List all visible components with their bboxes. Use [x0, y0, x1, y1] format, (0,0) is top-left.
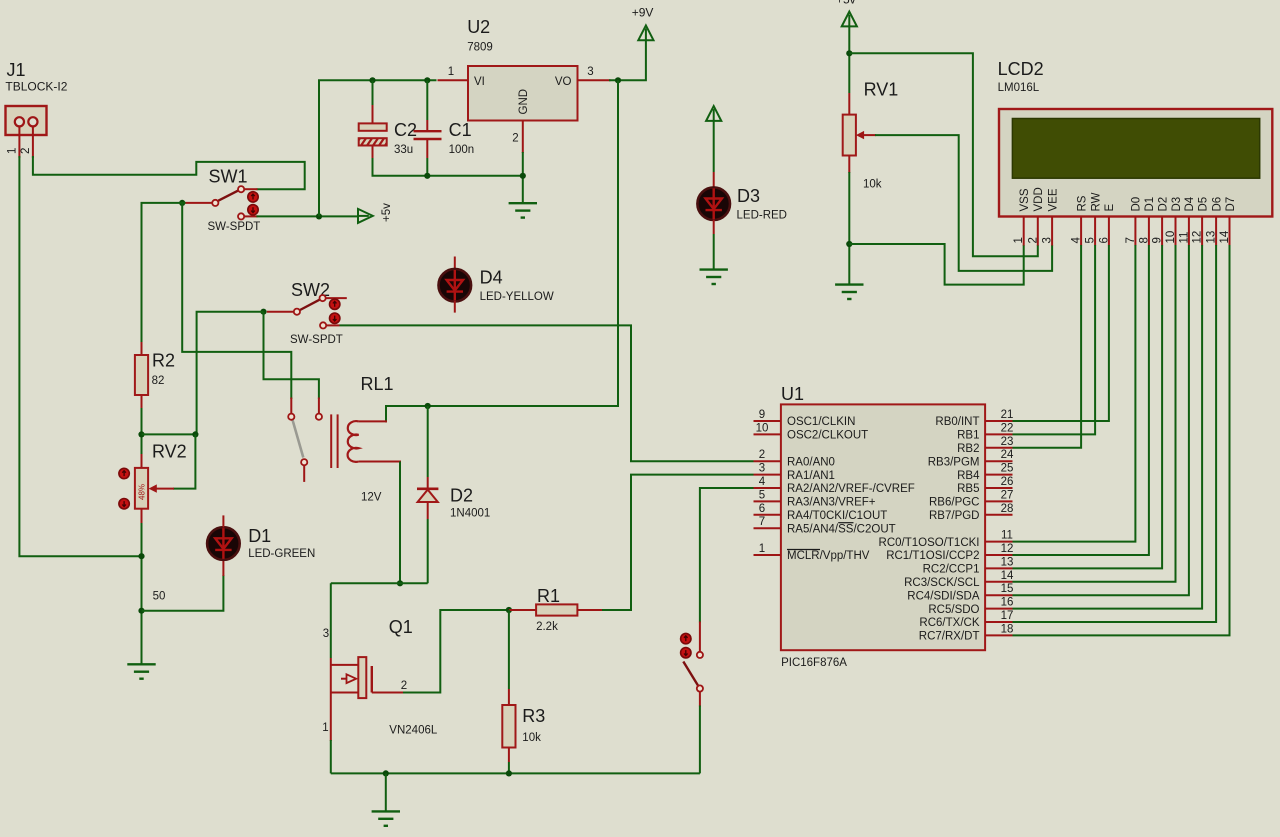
svg-text:6: 6 [759, 503, 765, 515]
relay NO contact [316, 414, 322, 420]
U1 pin 3 stub [754, 474, 781, 476]
wire Q1 drain [330, 583, 332, 658]
svg-text:RA4/T0CKI/C1OUT: RA4/T0CKI/C1OUT [787, 510, 887, 522]
wire D2 anode [427, 406, 429, 477]
svg-text:15: 15 [1001, 583, 1014, 595]
wire SW2 throw to U1 RA0 [340, 325, 754, 461]
svg-text:E: E [1104, 204, 1116, 212]
U2 pin 3 stub [578, 79, 611, 81]
svg-text:100n: 100n [449, 144, 475, 156]
potentiometer RV1 body [843, 115, 856, 156]
svg-text:RC3/SCK/SCL: RC3/SCK/SCL [904, 577, 980, 589]
ground RV1 [835, 285, 863, 299]
svg-text:1: 1 [322, 722, 328, 734]
capacitor C2 plates (electrolytic) [359, 123, 387, 130]
SW1 pole stub [186, 202, 213, 204]
wire D3 anode [713, 120, 715, 172]
svg-text:12: 12 [1001, 543, 1014, 555]
LCD2 pin 13 stub [1215, 217, 1217, 246]
svg-text:D0: D0 [1131, 197, 1143, 212]
wire drain rail [331, 582, 428, 584]
svg-text:2: 2 [1027, 237, 1039, 243]
wire RC7 to LCD D7 [1013, 245, 1230, 635]
SW1 lower throw stub [244, 215, 257, 217]
svg-text:2: 2 [759, 449, 765, 461]
svg-text:RB0/INT: RB0/INT [935, 416, 979, 428]
Q1 gate lead [372, 692, 404, 694]
svg-text:D2: D2 [1157, 197, 1169, 212]
overline SS [838, 522, 853, 524]
LCD2 pin 1 stub [1023, 217, 1025, 246]
svg-text:10: 10 [756, 422, 769, 434]
svg-text:R2: R2 [152, 351, 175, 371]
RV2 actuator dots [119, 468, 129, 509]
junction ground tap [383, 770, 389, 776]
junction D2 top [425, 403, 431, 409]
svg-text:LED-RED: LED-RED [737, 209, 787, 221]
wire +5v to U2 VI rail [319, 80, 437, 216]
U1 pin 25 stub [985, 474, 1012, 476]
wire SW1 pole to relay pole [182, 203, 291, 399]
LCD2 pin 4 stub [1080, 217, 1082, 246]
junction SW1 pole [179, 200, 185, 206]
svg-text:D5: D5 [1197, 197, 1209, 212]
svg-text:RB4: RB4 [957, 470, 980, 482]
svg-text:TBLOCK-I2: TBLOCK-I2 [5, 80, 67, 94]
wire U1 RA2 to switch [700, 488, 754, 623]
capacitor C1 [426, 80, 428, 120]
svg-text:10k: 10k [863, 179, 882, 191]
SW1 lower throw contact [238, 213, 244, 219]
LCD2 screen [1012, 119, 1259, 179]
svg-text:18: 18 [1001, 623, 1014, 635]
wire Q1 source to rail [330, 740, 332, 773]
svg-text:RW: RW [1090, 192, 1102, 211]
svg-text:LED-YELLOW: LED-YELLOW [480, 291, 554, 303]
svg-text:D4: D4 [1184, 196, 1196, 211]
svg-text:MCLR/Vpp/THV: MCLR/Vpp/THV [787, 550, 870, 562]
D1 anode stub [222, 515, 224, 527]
wire SW2 pole to divider [197, 312, 264, 435]
svg-text:11: 11 [1178, 232, 1190, 244]
wire relay coil to Q1 drain rail [399, 462, 401, 584]
U1 pin 5 stub [754, 500, 781, 502]
junction R3 bottom [506, 770, 512, 776]
relay coil top lead [359, 420, 387, 422]
wire R2 to RV2 [141, 408, 143, 455]
junction C2 top [369, 77, 375, 83]
wire VO node down to relay coil [386, 80, 618, 422]
svg-text:28: 28 [1001, 503, 1014, 515]
svg-text:5: 5 [759, 489, 765, 501]
svg-text:RV2: RV2 [152, 441, 187, 461]
LCD2 pin 8 stub [1148, 217, 1150, 246]
SW2 actuator dots [330, 299, 340, 323]
RV1 wiper arrow [862, 134, 876, 136]
J1 pin circle 1 [15, 117, 24, 126]
svg-text:C1: C1 [449, 120, 472, 140]
display LCD2 LM016L body [999, 109, 1272, 217]
relay pole contact [288, 414, 294, 420]
svg-text:9: 9 [759, 409, 765, 421]
svg-text:SW-SPDT: SW-SPDT [208, 221, 261, 233]
svg-text:RB7/PGD: RB7/PGD [929, 510, 980, 522]
power arrow +9V [638, 25, 653, 40]
svg-text:9: 9 [1152, 237, 1164, 243]
wire R2 bottom to SW2 branch [142, 433, 196, 435]
svg-text:2: 2 [401, 680, 407, 692]
U1 pin 21 stub [985, 420, 1012, 422]
resistor R1 [536, 604, 577, 615]
junction D1 node [138, 608, 144, 614]
J1 pin 1 stub [18, 126, 20, 158]
R3 leads [508, 610, 510, 689]
svg-text:R1: R1 [537, 586, 560, 606]
svg-text:5: 5 [1085, 237, 1097, 243]
diode D2 symbol [417, 487, 438, 490]
svg-text:7809: 7809 [467, 42, 493, 54]
SW1 upper throw stub [244, 188, 257, 190]
wire D4 anode stub [454, 257, 456, 270]
svg-text:14: 14 [1219, 230, 1231, 243]
svg-text:RA1/AN1: RA1/AN1 [787, 470, 835, 482]
svg-text:D2: D2 [450, 486, 473, 506]
SW2 lower throw stub [326, 324, 339, 326]
svg-text:RC6/TX/CK: RC6/TX/CK [919, 617, 979, 629]
svg-text:LM016L: LM016L [998, 82, 1040, 94]
wire RV2 bottom to ground [141, 523, 143, 664]
junction coil/drain [397, 580, 403, 586]
svg-text:10: 10 [1165, 231, 1177, 244]
relay RL1 core [330, 414, 332, 468]
microcontroller U1 PIC16F876A body [781, 404, 985, 650]
svg-text:3: 3 [587, 66, 593, 78]
svg-text:RA5/AN4/SS/C2OUT: RA5/AN4/SS/C2OUT [787, 523, 896, 535]
svg-text:2: 2 [512, 133, 518, 145]
relay contact stubs [290, 398, 292, 414]
transistor Q1 channel bar [358, 657, 366, 698]
wire RB2 to LCD RS [1013, 245, 1082, 448]
junction J1.1 node [138, 553, 144, 559]
svg-text:12V: 12V [361, 492, 382, 504]
R1 left lead [509, 609, 536, 611]
junction RV1 top [846, 50, 852, 56]
resistor R2 leads [141, 342, 143, 355]
wire J1.2 to SW1 throw [33, 156, 305, 189]
wire RB0 to LCD E [1013, 245, 1109, 421]
svg-text:25: 25 [1001, 463, 1014, 475]
svg-text:21: 21 [1001, 409, 1014, 421]
svg-text:13: 13 [1206, 231, 1218, 244]
wire D3 cathode [713, 220, 715, 235]
svg-text:SW-SPDT: SW-SPDT [290, 334, 343, 346]
svg-text:RC4/SDI/SDA: RC4/SDI/SDA [907, 590, 980, 602]
wire SW2 pole to relay throw [264, 312, 319, 399]
U1 pin 14 stub [985, 581, 1012, 583]
svg-text:VI: VI [474, 76, 485, 88]
svg-text:RB5: RB5 [957, 483, 979, 495]
U2 pin 2 stub [522, 121, 524, 154]
svg-text:D4: D4 [480, 268, 503, 288]
U1 pin 12 stub [985, 554, 1012, 556]
wire J1.1 to divider bottom node [19, 156, 141, 556]
svg-text:D3: D3 [737, 186, 760, 206]
U1 pin 18 stub [985, 634, 1012, 636]
wire RC4 to LCD D4 [1013, 245, 1189, 595]
svg-text:PIC16F876A: PIC16F876A [781, 657, 847, 669]
LCD2 pin 3 stub [1051, 217, 1053, 246]
svg-text:7: 7 [1125, 237, 1137, 243]
svg-text:R3: R3 [522, 706, 545, 726]
svg-text:2: 2 [20, 148, 32, 154]
overline MCLR [787, 549, 820, 551]
SW2 upper throw contact [320, 295, 326, 301]
svg-text:14: 14 [1001, 570, 1014, 582]
svg-text:RC1/T1OSI/CCP2: RC1/T1OSI/CCP2 [886, 550, 979, 562]
U1 pin 6 stub [754, 514, 781, 516]
svg-text:1: 1 [7, 148, 19, 154]
svg-text:8: 8 [1138, 237, 1150, 243]
svg-text:RC0/T1OSO/T1CKI: RC0/T1OSO/T1CKI [879, 537, 980, 549]
LCD2 pin 2 stub [1037, 217, 1039, 246]
svg-text:RB2: RB2 [957, 443, 979, 455]
J1 pin 2 stub [32, 126, 34, 158]
U1 pin 17 stub [985, 621, 1012, 623]
svg-text:RC7/RX/DT: RC7/RX/DT [919, 631, 980, 643]
wire D4 cathode stub [454, 301, 456, 313]
R1 right lead [577, 609, 603, 611]
svg-text:VO: VO [555, 76, 572, 88]
U1 pin 28 stub [985, 514, 1012, 516]
wire RV1 wiper to LCD VEE [875, 135, 1052, 271]
wire D2 cathode [427, 502, 429, 519]
svg-text:26: 26 [1001, 476, 1014, 488]
svg-text:3: 3 [759, 463, 765, 475]
svg-text:1: 1 [759, 543, 765, 555]
wire RC1 to LCD D1 [1013, 245, 1149, 555]
svg-text:6: 6 [1098, 237, 1110, 243]
wire U2 VO to +9V arrow [609, 40, 646, 81]
SW2 pole stub [267, 311, 294, 313]
wire Q1 gate to R1 node [403, 610, 512, 693]
svg-text:22: 22 [1001, 422, 1014, 434]
wire R1 to U1 RA1 [602, 475, 754, 610]
wire RC6 to LCD D6 [1013, 245, 1217, 622]
svg-text:RC2/CCP1: RC2/CCP1 [923, 564, 980, 576]
potentiometer RV2 leads [141, 454, 143, 468]
junction +5v line [316, 213, 322, 219]
wire RV1 top to LCD VDD [849, 53, 1038, 256]
relay NC contact [301, 459, 307, 465]
LED D1 LED-GREEN [207, 527, 240, 560]
Q1 body arrow [347, 674, 357, 683]
LCD2 pin 5 stub [1094, 217, 1096, 246]
svg-text:23: 23 [1001, 436, 1014, 448]
LCD2 pin 9 stub [1161, 217, 1163, 246]
capacitor C2 leads [372, 80, 374, 105]
LCD2 pin 11 stub [1188, 217, 1190, 246]
U1 pin 4 stub [754, 487, 781, 489]
svg-text:3: 3 [323, 628, 329, 640]
wire SW1 throw to +5v [257, 215, 359, 217]
junction U2 ground rail [520, 173, 526, 179]
wire C2/C1/U2 ground rail [373, 158, 523, 176]
ground divider [127, 664, 155, 678]
svg-text:RA3/AN3/VREF+: RA3/AN3/VREF+ [787, 497, 876, 509]
svg-text:RC5/SDO: RC5/SDO [928, 604, 979, 616]
SW2 pole contact [294, 309, 300, 315]
LCD2 pin 12 stub [1201, 217, 1203, 246]
bottom switch lever [683, 662, 698, 686]
U1 pin 22 stub [985, 433, 1012, 435]
svg-text:4: 4 [1071, 237, 1083, 244]
junction R2 bottom [138, 431, 144, 437]
relay RL1 coil [348, 421, 359, 462]
svg-text:17: 17 [1001, 610, 1014, 622]
svg-text:1: 1 [448, 66, 454, 78]
svg-text:J1: J1 [7, 60, 26, 80]
svg-text:GND: GND [518, 89, 530, 115]
svg-text:27: 27 [1001, 489, 1014, 501]
svg-text:VSS: VSS [1019, 188, 1031, 211]
svg-text:D6: D6 [1211, 197, 1223, 212]
svg-text:2.2k: 2.2k [536, 621, 558, 633]
U1 pin 9 stub [754, 420, 781, 422]
SW1 upper throw contact [238, 186, 244, 192]
svg-text:RB6/PGC: RB6/PGC [929, 497, 980, 509]
wire ground to LCD VSS [849, 244, 1023, 285]
power arrow +5v RV1 [842, 12, 857, 27]
svg-text:RS: RS [1076, 195, 1088, 211]
svg-text:RA2/AN2/VREF-/CVREF: RA2/AN2/VREF-/CVREF [787, 483, 915, 495]
relay coil bottom lead [359, 461, 401, 463]
U1 pin 10 stub [754, 433, 781, 435]
relay lever [293, 420, 304, 458]
bottom switch bottom stub [699, 692, 701, 707]
svg-text:LED-GREEN: LED-GREEN [248, 548, 315, 560]
potentiometer RV2 body [135, 468, 148, 509]
wire RC0 to LCD D0 [1013, 245, 1136, 542]
RV2 wiper arrow [155, 488, 174, 490]
svg-text:10k: 10k [522, 732, 541, 744]
svg-text:VN2406L: VN2406L [389, 724, 438, 736]
svg-text:LCD2: LCD2 [998, 59, 1044, 79]
U1 pin 1 stub [754, 554, 781, 556]
wire switch to rail [699, 706, 701, 774]
svg-text:Q1: Q1 [389, 617, 413, 637]
svg-text:U1: U1 [781, 384, 804, 404]
LCD2 pin 10 stub [1175, 217, 1177, 246]
RV1 bottom lead [848, 156, 850, 174]
svg-text:U2: U2 [467, 17, 490, 37]
U1 pin 13 stub [985, 567, 1012, 569]
junction RV2 wiper net [192, 431, 198, 437]
svg-text:24: 24 [1001, 449, 1014, 461]
bottom switch top stub [699, 622, 701, 652]
SW1 pole contact [212, 200, 218, 206]
wire D1 cathode [142, 575, 224, 611]
ground D3 [700, 270, 728, 284]
resistor R3 [502, 705, 515, 748]
SW2 lower throw contact [320, 322, 326, 328]
svg-text:RB1: RB1 [957, 430, 979, 442]
wire U2 GND to ground [522, 152, 524, 203]
svg-text:RV1: RV1 [864, 80, 899, 100]
svg-text:33u: 33u [394, 144, 413, 156]
wire RC5 to LCD D5 [1013, 245, 1203, 609]
svg-text:3: 3 [1042, 237, 1054, 243]
junction VO output node [615, 77, 621, 83]
svg-text:OSC2/CLKOUT: OSC2/CLKOUT [787, 430, 868, 442]
LED D4 LED-YELLOW [439, 269, 472, 302]
U1 pin 11 stub [985, 541, 1012, 543]
ground bottom [372, 811, 400, 825]
LED D3 LED-RED [697, 187, 730, 220]
svg-text:VDD: VDD [1033, 187, 1045, 211]
SW2 lever [300, 300, 320, 310]
resistor R2 [135, 355, 148, 395]
svg-text:OSC1/CLKIN: OSC1/CLKIN [787, 416, 855, 428]
U1 pin 7 stub [754, 527, 781, 529]
svg-text:D1: D1 [248, 526, 271, 546]
svg-text:12: 12 [1192, 231, 1204, 244]
svg-text:11: 11 [1001, 530, 1013, 542]
wire RC2 to LCD D2 [1013, 245, 1163, 568]
SW1 actuator dots [248, 192, 258, 215]
connector J1 TBLOCK-I2 [6, 106, 47, 135]
svg-text:13: 13 [1001, 556, 1014, 568]
junction C1 top [424, 77, 430, 83]
svg-text:+5v: +5v [381, 203, 393, 222]
U1 pin 26 stub [985, 487, 1012, 489]
U1 pin 16 stub [985, 608, 1012, 610]
junction R1/R3/gate [506, 607, 512, 613]
svg-text:SW1: SW1 [209, 167, 248, 187]
SW1 lever [218, 190, 238, 200]
bottom switch lower contact [697, 685, 703, 691]
svg-text:D1: D1 [1144, 197, 1156, 212]
wire to bottom ground [385, 773, 387, 811]
RV1 top lead [848, 26, 850, 94]
svg-text:1: 1 [1013, 237, 1025, 243]
wire bottom ground rail [331, 772, 700, 774]
svg-text:RL1: RL1 [361, 374, 394, 394]
svg-text:D7: D7 [1225, 197, 1237, 212]
wire RC3 to LCD D3 [1013, 245, 1176, 582]
junction C1 bottom [424, 173, 430, 179]
svg-text:RB3/PGM: RB3/PGM [928, 456, 980, 468]
bottom switch actuator dots [681, 633, 691, 658]
U2 pin 1 stub [438, 79, 469, 81]
svg-text:VEE: VEE [1047, 188, 1059, 211]
svg-text:+5v: +5v [836, 0, 856, 7]
U1 pin 23 stub [985, 447, 1012, 449]
svg-text:1N4001: 1N4001 [450, 508, 490, 520]
Q1 gate bar [371, 666, 373, 693]
svg-text:4: 4 [759, 476, 766, 488]
svg-text:48%: 48% [138, 484, 147, 500]
power arrow above D3 [706, 106, 721, 121]
power arrow +5v (SW1) [358, 209, 373, 223]
svg-text:16: 16 [1001, 597, 1014, 609]
svg-text:50: 50 [153, 591, 166, 603]
svg-text:RA0/AN0: RA0/AN0 [787, 456, 835, 468]
svg-text:D3: D3 [1171, 197, 1183, 212]
LCD2 pin 6 stub [1108, 217, 1110, 246]
SW2 upper throw stub [326, 297, 347, 299]
J1 pin circle 2 [28, 117, 37, 126]
svg-text:7: 7 [759, 516, 765, 528]
